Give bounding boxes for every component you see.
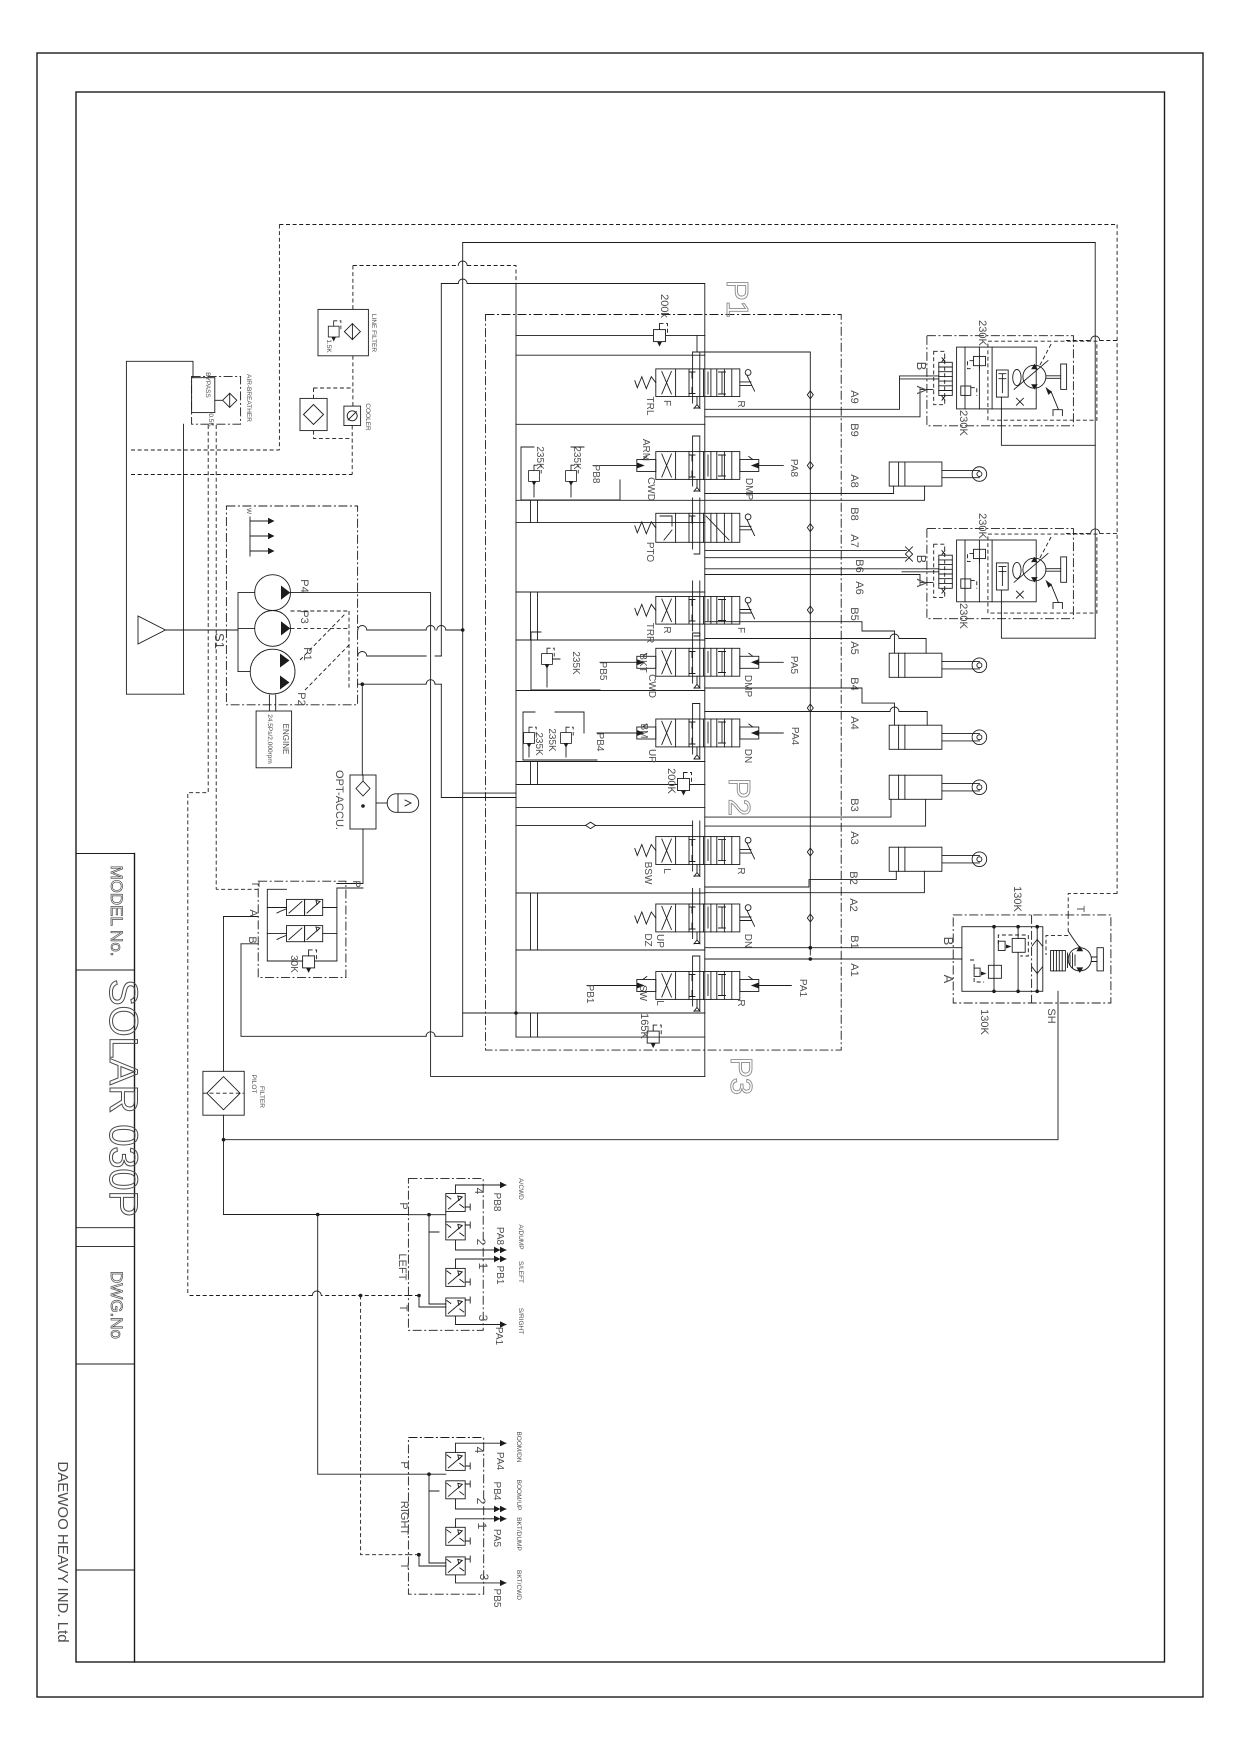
svg-text:P2: P2 <box>722 778 757 816</box>
RIGHT remote control valve <box>398 1431 522 1607</box>
svg-text:RIGHT: RIGHT <box>398 1501 410 1536</box>
svg-text:1: 1 <box>476 1263 490 1270</box>
svg-text:B1: B1 <box>848 935 860 948</box>
relief 165K P3 inlet <box>647 1025 661 1048</box>
svg-text:DMP: DMP <box>743 478 754 501</box>
svg-text:P: P <box>398 1461 410 1468</box>
suction strainer S1 <box>138 616 165 644</box>
dashed return piping <box>131 225 1117 894</box>
svg-text:BKT/CWD: BKT/CWD <box>515 1570 522 1600</box>
T dashed to tank <box>216 888 258 890</box>
svg-text:2: 2 <box>474 1239 488 1246</box>
svg-text:PB1: PB1 <box>494 1266 505 1285</box>
svg-text:DWG.No: DWG.No <box>107 1271 126 1339</box>
svg-text:COOLER: COOLER <box>364 403 371 431</box>
supply riser to bank top <box>462 243 464 1037</box>
svg-text:PA5: PA5 <box>788 656 799 675</box>
svg-text:130K: 130K <box>1011 886 1023 912</box>
svg-text:A/DUMP: A/DUMP <box>517 1224 524 1249</box>
svg-text:DN: DN <box>742 749 753 763</box>
solenoid valve 2 <box>277 926 323 942</box>
pilot line from solenoid B <box>241 944 463 1037</box>
svg-text:130K: 130K <box>978 1009 990 1035</box>
svg-text:ENGINE: ENGINE <box>281 724 290 755</box>
remote T return dashed <box>188 1295 409 1297</box>
wire A5 <box>705 639 926 654</box>
pump P3 <box>255 611 291 647</box>
svg-text:B2: B2 <box>847 871 859 884</box>
relief assembly 1 <box>998 935 1028 956</box>
P group dash-dot boundary box <box>486 315 842 1051</box>
wire: cooler to tank <box>131 426 352 475</box>
svg-text:OPT-ACCU.: OPT-ACCU. <box>333 770 345 830</box>
svg-text:P: P <box>397 1202 409 1209</box>
svg-text:30K: 30K <box>288 955 299 973</box>
hydraulic tank <box>126 361 193 694</box>
svg-text:AIR-BREATHER: AIR-BREATHER <box>245 374 252 422</box>
svg-text:3: 3 <box>476 1315 490 1322</box>
wire A1 <box>705 958 962 960</box>
svg-text:F: F <box>735 627 746 633</box>
svg-text:MODEL No.: MODEL No. <box>107 865 126 956</box>
svg-text:B5: B5 <box>848 607 860 620</box>
pilot dashed link <box>1066 532 1117 534</box>
T port dashed entry <box>1068 894 1117 915</box>
svg-text:PA8: PA8 <box>494 1227 505 1246</box>
line filter <box>318 309 377 355</box>
valve SW swing <box>584 956 808 1011</box>
wire B7 plugged <box>705 557 907 559</box>
svg-text:T: T <box>249 881 261 888</box>
internal P/T wiring <box>408 1212 445 1222</box>
P2 supply riser <box>441 284 516 1014</box>
A port line <box>224 916 259 918</box>
svg-text:B8: B8 <box>848 507 860 520</box>
svg-text:B: B <box>914 555 929 564</box>
valve BKT bucket <box>597 633 799 698</box>
svg-text:PB4: PB4 <box>491 1482 502 1501</box>
svg-text:R: R <box>735 867 746 874</box>
cylinder 4 (bucket) <box>889 775 987 799</box>
svg-text:4: 4 <box>472 1447 486 1454</box>
bank section divider lines <box>516 355 705 1013</box>
svg-text:230K: 230K <box>976 513 988 539</box>
svg-text:A: A <box>914 386 929 395</box>
svg-text:A7: A7 <box>848 534 860 547</box>
svg-text:TRR: TRR <box>644 623 655 644</box>
port 4 BOOM/DN <box>456 1443 507 1452</box>
valve BM boom <box>594 704 800 764</box>
svg-text:A9: A9 <box>848 390 860 403</box>
svg-text:W: W <box>245 508 252 515</box>
svg-text:DAEWOO HEAVY IND. Ltd: DAEWOO HEAVY IND. Ltd <box>54 1461 71 1642</box>
svg-text:UP: UP <box>646 749 657 763</box>
pump assembly dash-dot box <box>226 506 357 705</box>
svg-text:ARM: ARM <box>640 439 651 461</box>
PB8 stub <box>593 465 637 467</box>
pump P1 P2 (double) <box>250 649 295 694</box>
svg-text:P3: P3 <box>298 610 310 623</box>
svg-text:PB8: PB8 <box>491 1193 502 1212</box>
wire: line filter riser <box>352 266 354 310</box>
svg-text:P2: P2 <box>295 692 307 705</box>
svg-text:2: 2 <box>474 1498 488 1505</box>
pilot drain long line <box>224 1139 1058 1141</box>
svg-text:B: B <box>246 936 258 943</box>
svg-text:PB4: PB4 <box>594 733 605 752</box>
wire: top pilot return line <box>279 224 1117 226</box>
port 3 S/RIGHT <box>456 1316 507 1325</box>
svg-text:B: B <box>914 362 929 371</box>
wire: filter to cooler <box>314 356 353 406</box>
svg-text:LEFT: LEFT <box>396 1254 408 1281</box>
crossing humps <box>312 261 1099 1296</box>
pilot supply to remote valves <box>224 1214 409 1216</box>
wire A3 <box>705 800 926 827</box>
svg-text:SW: SW <box>637 985 648 1002</box>
svg-text:P: P <box>350 880 362 887</box>
svg-text:R: R <box>661 626 672 633</box>
port 1 S/LEFT <box>456 1259 507 1268</box>
wire A9 <box>705 376 939 409</box>
svg-text:SOLAR 030P: SOLAR 030P <box>101 979 145 1217</box>
brake hatch block <box>1051 951 1066 971</box>
svg-text:A/CWD: A/CWD <box>517 1178 524 1200</box>
cylinder 5 (dozer) <box>889 847 987 871</box>
svg-text:235K: 235K <box>546 728 557 752</box>
svg-text:230K: 230K <box>976 320 988 346</box>
engine box <box>256 695 292 768</box>
svg-text:L: L <box>654 1000 665 1006</box>
svg-text:A4: A4 <box>848 716 860 729</box>
svg-text:PTO: PTO <box>644 542 655 563</box>
tank return dashed risers <box>188 425 208 1296</box>
svg-text:200k: 200k <box>658 294 670 318</box>
oil cooler <box>300 398 371 431</box>
air breather <box>192 372 252 427</box>
cylinder 1 (arm) <box>889 462 987 486</box>
wire: right pilot drop <box>1116 225 1118 894</box>
pump output line P2 <box>358 655 442 657</box>
svg-text:CWD: CWD <box>646 674 657 698</box>
wire: filter branch to bank corner <box>353 266 516 284</box>
solenoid valve 1 <box>277 899 323 915</box>
wire: return riser <box>278 225 280 451</box>
valve BSW boom-swing <box>635 821 755 885</box>
svg-text:PA4: PA4 <box>494 1452 505 1471</box>
svg-text:BKT/DUMP: BKT/DUMP <box>515 1517 522 1551</box>
svg-text:1.5K: 1.5K <box>325 339 332 353</box>
svg-text:24.5Ps/2,000rpm: 24.5Ps/2,000rpm <box>266 714 273 764</box>
wire B5 <box>705 622 895 654</box>
svg-text:DMP: DMP <box>742 675 753 698</box>
relief 30K <box>303 950 317 973</box>
svg-text:PB8: PB8 <box>590 465 601 484</box>
svg-text:235K: 235K <box>534 446 545 470</box>
svg-text:200K: 200K <box>665 768 677 794</box>
motor circle <box>1068 948 1091 971</box>
svg-text:PA8: PA8 <box>788 459 799 478</box>
svg-text:L: L <box>661 868 672 874</box>
valve ARM <box>590 436 799 501</box>
relief assembly 2 <box>970 960 1001 982</box>
wire B1 <box>705 947 962 949</box>
svg-text:T: T <box>1074 906 1086 913</box>
valve DZ dozer <box>635 889 755 949</box>
wire B4 <box>705 688 895 725</box>
drain line <box>1001 409 1095 445</box>
svg-text:4: 4 <box>472 1188 486 1195</box>
svg-text:3: 3 <box>477 1574 491 1581</box>
relief 200K P1 inlet <box>516 335 705 337</box>
pump P4 <box>255 575 291 611</box>
pump output line P3 <box>358 683 442 685</box>
case drain checks W <box>250 517 268 556</box>
port 2 BOOM/UP <box>456 1499 507 1509</box>
svg-text:230K: 230K <box>957 603 969 629</box>
svg-text:PA1: PA1 <box>797 979 808 998</box>
svg-text:F: F <box>661 400 672 406</box>
wire B6 <box>705 569 939 572</box>
travel motor 2 <box>914 513 1117 638</box>
valve PTO <box>635 498 755 562</box>
svg-text:DN: DN <box>742 934 753 948</box>
relief 235K BKT section <box>531 632 600 690</box>
cylinder 2 (boom L) <box>889 653 987 677</box>
svg-text:BSW: BSW <box>642 862 653 885</box>
svg-text:UP: UP <box>654 934 665 948</box>
wire A7 plugged <box>705 549 907 551</box>
svg-text:S/RIGHT: S/RIGHT <box>517 1308 524 1334</box>
svg-text:DZ: DZ <box>642 933 653 946</box>
rail junction diamonds <box>807 391 813 922</box>
svg-text:A1: A1 <box>848 963 860 976</box>
supply top run to travel motors <box>463 242 1095 244</box>
pump output line P1 <box>358 629 463 631</box>
LEFT remote control valve <box>396 1178 524 1345</box>
T rail <box>267 889 286 961</box>
svg-text:235K: 235K <box>570 651 581 675</box>
svg-text:235K: 235K <box>533 732 544 756</box>
svg-text:CWD: CWD <box>645 477 656 501</box>
port 2 A/DUMP <box>456 1240 507 1250</box>
cylinder 3 (boom R) <box>889 725 987 749</box>
svg-text:230K: 230K <box>957 410 969 436</box>
svg-text:B4: B4 <box>848 677 860 690</box>
svg-text:PB5: PB5 <box>491 1589 502 1608</box>
wire: return header to tank <box>131 449 279 451</box>
drain line <box>1001 602 1095 638</box>
check valves on rail <box>1032 940 1042 974</box>
svg-text:T: T <box>397 1305 409 1312</box>
svg-text:235K: 235K <box>571 446 582 470</box>
svg-text:PB1: PB1 <box>584 985 595 1004</box>
travel motor 1 <box>914 320 1117 445</box>
svg-text:A8: A8 <box>848 474 860 487</box>
title block column <box>54 854 145 1663</box>
svg-text:B6: B6 <box>853 559 865 572</box>
svg-text:S/LEFT: S/LEFT <box>517 1261 524 1283</box>
P rail <box>337 888 363 961</box>
port label column <box>847 390 865 976</box>
svg-text:P4: P4 <box>298 579 310 592</box>
svg-text:A6: A6 <box>853 581 865 594</box>
svg-text:P3: P3 <box>724 1057 759 1095</box>
svg-text:A: A <box>941 975 956 984</box>
svg-text:PILOT: PILOT <box>250 1075 257 1094</box>
wire A4 <box>705 712 927 726</box>
svg-text:P1: P1 <box>301 647 313 660</box>
wire B8 <box>516 486 925 500</box>
svg-text:BYPASS: BYPASS <box>204 372 211 398</box>
svg-text:R: R <box>735 999 746 1006</box>
brake spring <box>1068 953 1076 968</box>
block rails <box>994 927 1037 992</box>
inner border frame <box>76 92 1165 1662</box>
relief 235K pair BM section <box>523 712 597 760</box>
svg-text:BKT: BKT <box>637 653 648 672</box>
svg-text:PA4: PA4 <box>789 727 800 746</box>
port 4 A/CWD <box>456 1185 507 1194</box>
svg-text:FILTER: FILTER <box>258 1086 265 1108</box>
svg-text:SH: SH <box>1045 1008 1057 1023</box>
bank right pilot rail <box>693 352 811 955</box>
svg-text:BOOM/DN: BOOM/DN <box>515 1431 522 1462</box>
B port line <box>241 943 258 945</box>
suction rail <box>165 593 254 672</box>
port 3 BKT/CWD <box>456 1575 507 1583</box>
PA8 stub <box>759 465 783 467</box>
svg-text:165K: 165K <box>638 1013 650 1039</box>
svg-text:P1: P1 <box>720 280 755 318</box>
svg-text:BM: BM <box>638 724 649 739</box>
svg-text:S1: S1 <box>212 633 227 649</box>
swash control dashed <box>291 611 350 690</box>
svg-text:PA5: PA5 <box>491 1529 502 1548</box>
svg-text:B9: B9 <box>848 423 860 436</box>
svg-text:A3: A3 <box>848 831 860 844</box>
svg-text:LINE FILTER: LINE FILTER <box>370 314 377 352</box>
svg-text:BOOM/UP: BOOM/UP <box>515 1480 522 1511</box>
wire A2 <box>705 871 925 892</box>
svg-text:TRL: TRL <box>644 397 655 416</box>
valve TRR travel-right <box>635 581 755 643</box>
wire B9 <box>705 390 933 417</box>
relief 235K pair ARM section <box>521 446 620 500</box>
wire A6 <box>705 575 933 583</box>
wire B3 <box>705 800 891 818</box>
svg-text:B3: B3 <box>848 798 860 811</box>
SH drain <box>1057 991 1059 1139</box>
svg-text:R: R <box>735 400 746 407</box>
valve TRL travel-left <box>635 352 755 416</box>
travel feed drop <box>1094 243 1096 639</box>
P3 feed drop <box>291 593 705 1077</box>
svg-text:A2: A2 <box>847 898 859 911</box>
svg-text:B: B <box>941 937 956 946</box>
port 1 BKT/DUMP <box>456 1519 507 1528</box>
wire A8 <box>705 486 894 493</box>
OPT accumulator riser <box>361 684 363 775</box>
svg-text:A5: A5 <box>848 641 860 654</box>
svg-text:A: A <box>914 579 929 588</box>
pilot dashed link <box>1066 340 1117 342</box>
relief 200K P2 inlet <box>516 784 705 786</box>
svg-text:PB5: PB5 <box>597 662 608 681</box>
svg-text:1: 1 <box>475 1523 489 1530</box>
svg-text:T: T <box>398 1563 410 1570</box>
svg-text:PA1: PA1 <box>493 1327 504 1346</box>
valve bank outer body <box>516 284 705 1077</box>
wire B2 <box>705 871 897 887</box>
